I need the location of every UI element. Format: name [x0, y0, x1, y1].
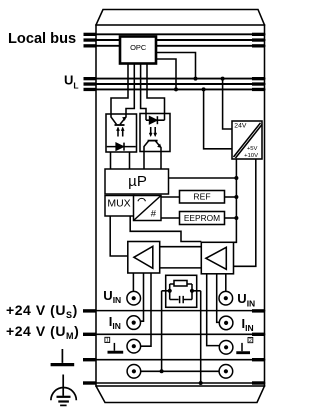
wire uP to +5V rail [169, 177, 236, 179]
wire A/D to REF [161, 196, 180, 198]
OPC box U1 [120, 37, 156, 64]
MUX box [105, 196, 134, 217]
wire OPC pin1 to left optocoupler [111, 64, 128, 115]
light arrows of OK1 [117, 129, 119, 137]
microprocessor uP box [105, 169, 169, 194]
wire OPC right to UL line1 [157, 53, 196, 79]
UM rail right bar [252, 333, 265, 336]
terminal UIN left [127, 291, 141, 305]
svg-text:REF: REF [193, 192, 210, 202]
junction dot RC right node [190, 289, 194, 293]
wire OK2 pin B to uP [160, 152, 162, 169]
US rail left bar [83, 309, 97, 312]
UL bus line 1 [97, 78, 265, 80]
svg-text:#: # [151, 208, 157, 219]
wire OPC pin3 to right optocoupler [141, 64, 146, 114]
wire A/D to EEPROM [161, 217, 180, 219]
light arrows of OK2 [150, 127, 152, 135]
junction dot at (222.6,78.6) [221, 77, 225, 81]
wire MUX to left amplifier [110, 216, 128, 256]
LED of OK1 [107, 146, 136, 148]
UL bus line 3 [97, 88, 265, 90]
UL bus line 2 [97, 83, 265, 85]
svg-text:+5V: +5V [247, 146, 258, 152]
optocoupler OK1 (left) [106, 114, 137, 152]
wire OPC pin2 to left optocoupler [126, 64, 134, 115]
local bus right connector bars [252, 33, 265, 36]
US rail right bar [252, 309, 265, 312]
functional earth symbol (left, outside module) [51, 349, 75, 365]
junction dot at (203.6,89.4) [202, 87, 206, 91]
amplifier A1 (left) [128, 242, 160, 274]
UL left connector bars [84, 77, 97, 80]
terminal FE left (row4) [127, 365, 141, 379]
LED of OK2 [145, 114, 147, 121]
wire UL line1 tap to DC converter [223, 79, 232, 129]
wire A1 to IIN terminal [140, 273, 143, 321]
resistor in RC filter [174, 281, 187, 287]
shield ground symbol 2 [236, 343, 250, 353]
wire A1 to UIN terminal [132, 273, 134, 291]
wire between amplifiers [160, 246, 202, 248]
svg-text:1: 1 [106, 338, 109, 344]
UM rail left bar [83, 333, 97, 336]
+24V UM rail [97, 333, 265, 335]
PE rail left bar [83, 381, 97, 384]
shield ground symbol 1 [108, 343, 124, 352]
junction dot at (236.4,218) [234, 216, 238, 220]
phototransistor of OK1 [111, 114, 117, 124]
svg-text:OPC: OPC [130, 43, 147, 52]
junction dot at (162,371.4) [160, 369, 164, 373]
wire EEPROM to +5V rail [225, 217, 237, 219]
terminal IIN right [219, 316, 233, 330]
junction dot RC left node [168, 289, 172, 293]
EEPROM box [180, 212, 225, 225]
module bottom face (3D) [96, 386, 265, 403]
module front face outline [96, 25, 265, 386]
terminal FE right (row4) [219, 365, 233, 379]
local bus left connector bars [84, 33, 97, 36]
capacitor in RC filter [180, 296, 184, 303]
wire OPC pin4 to right optocoupler [147, 64, 165, 114]
wire OK1 pin A to uP [110, 152, 112, 169]
RC filter left node wiring [162, 284, 192, 300]
wire MUX/AD to right amplifier [130, 216, 201, 242]
wire REF to +5V rail [225, 196, 237, 198]
svg-text:EEPROM: EEPROM [184, 213, 220, 223]
wire RC right to PE rail [200, 291, 202, 383]
terminal shield 1 left [127, 339, 141, 353]
junction dot at (236.4,197) [234, 195, 238, 199]
DC/DC converter 24V box [232, 121, 262, 159]
wire OPC right to UL line3 [157, 59, 176, 89]
svg-text:µP: µP [128, 173, 147, 190]
terminal shield 2 right [219, 341, 233, 355]
wire OK2 pin A to uP [143, 152, 145, 169]
lower wire between amplifiers [160, 267, 202, 269]
UL right connector bars [252, 77, 265, 80]
FE rail left bar [83, 358, 97, 361]
+5V supply wire from converter to right amplifier [234, 159, 237, 242]
phototransistor of OK2 [148, 140, 158, 142]
connector 1 marker box [105, 337, 110, 343]
local bus line 3 [97, 45, 265, 47]
+24V US rail [97, 310, 265, 312]
junction dot at (195.5,78.6) [194, 77, 198, 81]
svg-text:2: 2 [249, 338, 252, 344]
local bus line 2 [97, 39, 265, 41]
svg-text:Local bus: Local bus [8, 31, 76, 47]
PE rail [97, 382, 265, 384]
+10V supply wire from converter to right amplifier [234, 159, 256, 266]
terminal UIN right [219, 291, 233, 305]
wire OK1 pin B to uP [129, 152, 131, 169]
connector 2 marker box [248, 338, 253, 344]
wire RC left to shield row [161, 291, 163, 372]
svg-text:+10V: +10V [244, 153, 258, 159]
wire UL line3 tap to DC converter [204, 89, 232, 148]
terminal IIN left [127, 316, 141, 330]
PE rail right bar [252, 381, 265, 384]
FE rail [97, 359, 265, 361]
svg-text:MUX: MUX [107, 197, 130, 209]
A/D converter box [134, 196, 162, 221]
junction dot at (176,89.4) [174, 87, 178, 91]
REF box [180, 191, 225, 204]
junction dot at (201,383.3) [199, 381, 203, 385]
wire A2 to shield terminal 2 [207, 274, 220, 346]
wire joining FE terminals row4 [141, 370, 219, 372]
RC filter box [162, 275, 201, 307]
svg-text:24V: 24V [234, 122, 247, 129]
optocoupler OK2 (right) [140, 114, 170, 153]
RC filter right node wiring [184, 284, 201, 300]
amplifier A2 (right) [201, 242, 233, 273]
protective earth symbol (left, outside module) [51, 375, 76, 406]
junction dot at (236.4,178) [234, 176, 238, 180]
wire A2 to IIN terminal [217, 274, 220, 323]
FE rail right bar [252, 358, 265, 361]
local bus line 1 [97, 33, 265, 35]
wire A2 to UIN terminal [225, 274, 227, 292]
module top face (3D) [96, 10, 265, 26]
wire A1 to shield terminal 1 [140, 273, 151, 346]
